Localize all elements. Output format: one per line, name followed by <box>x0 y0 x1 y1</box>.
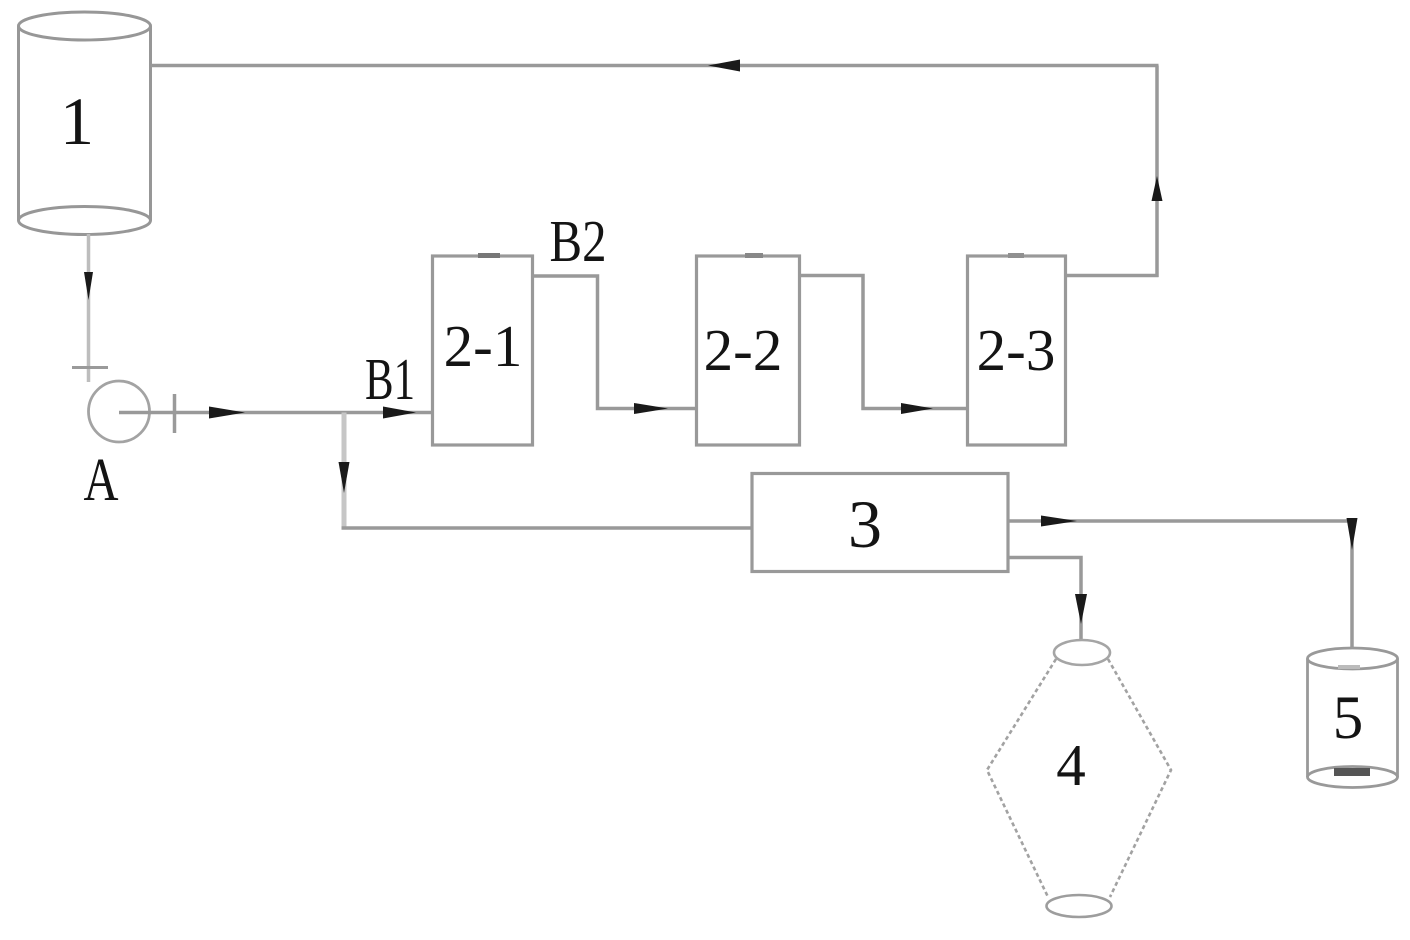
wire 2-2 top-right to 2-3 left <box>799 276 967 409</box>
svg-text:A: A <box>84 447 119 514</box>
arrow right into 2-3 <box>901 403 933 414</box>
svg-text:B1: B1 <box>365 346 415 412</box>
svg-text:2-3: 2-3 <box>977 317 1056 383</box>
svg-text:4: 4 <box>1056 732 1086 798</box>
wire right vertical x=1157 <box>1155 66 1159 278</box>
smudge in cylinder 5 bottom <box>1334 768 1370 776</box>
box 2-1 <box>433 256 533 445</box>
box 3 <box>752 474 1008 572</box>
svg-text:3: 3 <box>848 486 882 562</box>
tank 1 (cylinder) <box>19 12 151 235</box>
arrow up on x=1157 <box>1152 176 1163 201</box>
arrow down into 5 <box>1347 518 1358 550</box>
svg-text:2-1: 2-1 <box>444 313 523 379</box>
svg-text:5: 5 <box>1333 685 1364 752</box>
wire pump to box 2-1 (y=412) <box>119 411 432 415</box>
smudge top of box 2-1 <box>478 253 500 258</box>
wire tank1 bottom to pump (x=88) <box>87 234 91 382</box>
svg-text:B2: B2 <box>550 208 607 274</box>
arrow left on top line <box>708 60 740 72</box>
smudge in cylinder 5 top <box>1338 665 1360 669</box>
svg-text:2-2: 2-2 <box>704 317 783 383</box>
valve tick above pump <box>72 366 108 369</box>
valve tick on pump line <box>173 394 177 433</box>
arrow right box3 to 5 <box>1041 516 1077 527</box>
wire box3 out to vessel 4 <box>1008 558 1081 642</box>
cylinder 5 <box>1308 648 1398 788</box>
arrow right on pump line <box>209 407 245 419</box>
wire tank1 top output (y=65) <box>151 64 1159 68</box>
arrow down on branch x=344 <box>339 462 350 493</box>
pump A (circle) <box>89 381 150 442</box>
arrow down into 4 <box>1075 594 1087 624</box>
arrow down tank1->pump <box>84 272 93 300</box>
arrow right into 2-2 <box>634 403 668 414</box>
svg-text:1: 1 <box>60 83 94 159</box>
wire branch down from pump line (x=344) <box>342 413 347 529</box>
box 2-3 <box>968 256 1066 445</box>
smudge top of box 2-2 <box>745 253 763 258</box>
wire into 2-3 right (y=275) <box>1066 274 1159 278</box>
vessel 4 (diamond with ellipse ends) <box>987 640 1171 917</box>
wire box3 out to cylinder 5 <box>1008 521 1352 649</box>
wire branch to box 3 (y=528) <box>342 526 753 530</box>
wire B2: 2-1 top-right to 2-2 left <box>533 276 696 409</box>
smudge top of box 2-3 <box>1008 253 1024 258</box>
arrow right B1 <box>383 407 416 419</box>
box 2-2 <box>697 256 800 445</box>
